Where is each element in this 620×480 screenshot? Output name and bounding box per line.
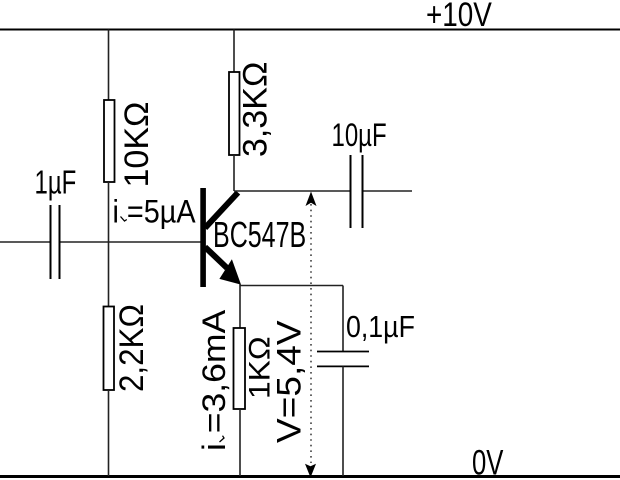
label 1KOhm [242,336,276,399]
capacitor C 10uF plates [351,155,363,228]
wire divider branch middle (R 10K to base node) [108,182,110,307]
label V=5,4V [270,320,308,443]
wire input to base (through divider junction) [61,241,201,243]
transistor Q1 emitter stroke [205,247,227,268]
wire emitter vertical to R 1K [239,284,241,328]
wire divider branch top (rail to R 10K) [108,30,110,101]
svg-text:i =5µA: i =5µA [113,194,197,230]
wire output right of C 10uF [364,190,413,192]
label 10KOhm [118,102,156,188]
svg-text:0V: 0V [472,443,504,480]
label 3,3KOhm [237,62,275,157]
node 0V label [472,443,504,480]
svg-text:3,3KΩ: 3,3KΩ [237,62,275,157]
resistor R 10K box [104,100,115,182]
svg-text:V=5,4V: V=5,4V [270,320,308,443]
label 10uF [332,117,387,153]
svg-text:10KΩ: 10KΩ [118,102,156,188]
wire top +10V rail [0,29,620,31]
svg-text:0,1µF: 0,1µF [346,310,415,344]
resistor R 2,2K box [104,307,115,391]
label 2,2KOhm [112,304,150,392]
svg-text:i =3,6mA: i =3,6mA [197,309,233,451]
svg-text:10µF: 10µF [332,117,387,153]
svg-text:BC547B: BC547B [213,214,306,255]
label 1uF [35,165,77,202]
wire bottom 0V rail [0,475,620,478]
label BC547B [213,214,306,255]
transistor Q1 emitter arrowhead [219,259,241,284]
wire R 1K to ground rail [239,409,241,476]
wire collector node horizontal [234,190,350,192]
transistor Q1 BC547B base bar [200,188,206,287]
wire emitter node horizontal [240,285,343,287]
label i=3,6mA with subscript tick [197,309,233,451]
wire input left segment [0,241,50,243]
measurement arrow V dotted line [310,204,312,463]
svg-text:1µF: 1µF [35,165,77,202]
wire divider branch bottom (R 2,2K to ground rail) [108,390,110,476]
capacitor C 0,1uF plates [317,352,369,367]
wire collector branch top (rail to R 3,3K) [233,30,235,73]
resistor R 1K box [234,328,246,409]
label 0,1uF [346,310,415,344]
capacitor C 1uF plates [51,205,60,279]
svg-text:2,2KΩ: 2,2KΩ [112,304,150,392]
transistor Q1 collector stroke [205,193,238,229]
wire branch C 0,1uF down from emitter node [342,286,344,352]
resistor R 3,3K box [229,72,240,155]
measurement arrowhead down [305,464,316,478]
label i=5uA with subscript tick [113,194,197,230]
wire C 0,1uF to ground rail [342,366,344,476]
wire collector branch bottom (R 3,3K to transistor) [233,155,235,191]
node +10V label [426,0,492,34]
measurement arrowhead up [306,192,317,207]
